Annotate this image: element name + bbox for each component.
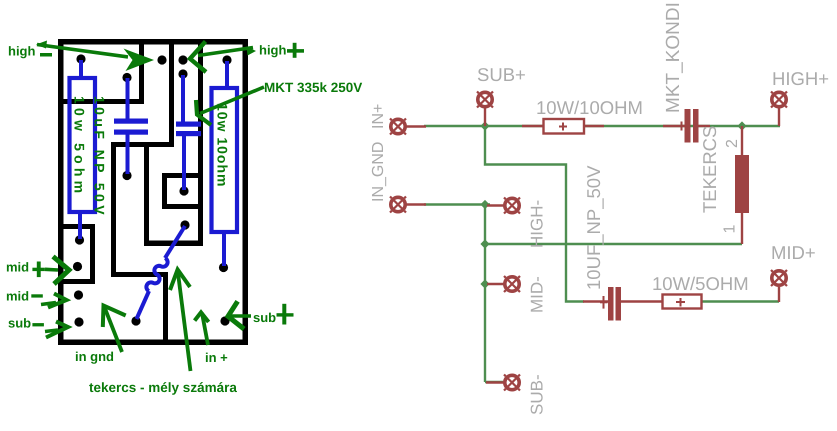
wire: R2 top lead [225, 61, 229, 88]
pad IN+ [390, 119, 406, 135]
capacitor 10UF_NP_50V right lead [621, 300, 663, 302]
pin number 1 [722, 225, 739, 234]
svg-text:in gnd: in gnd [75, 349, 114, 364]
trace wall: vertical divider V1 [169, 44, 174, 147]
label: tekercs - mely szamara [89, 380, 237, 395]
wire: R2 bottom lead [222, 232, 226, 266]
label MID- (rotated) [528, 276, 547, 313]
wire: R1 top lead [79, 60, 83, 78]
resistor 10W/10OHM R-EU leads [522, 125, 604, 127]
label R1 value 10w 5ohm [72, 96, 88, 197]
pad hole: sub+ node [220, 316, 229, 325]
pad HIGH+ [771, 92, 787, 108]
pin number 2 [724, 139, 741, 148]
arrow: in + pointer [195, 312, 209, 345]
svg-text:sub: sub [8, 316, 31, 331]
capacitor C1 plates [114, 119, 148, 135]
wire: net IN+ branch down from junction [485, 126, 584, 302]
wire: net GND to TEKERCS pin1 [485, 243, 742, 245]
svg-text:MID+: MID+ [771, 242, 816, 263]
trace wall: notch box top [162, 173, 198, 178]
pad IN_GND [390, 197, 406, 213]
junction node at MID- [480, 279, 489, 288]
capacitor C1 bottom lead [126, 134, 130, 174]
pad hole: mid+ node [73, 262, 82, 271]
svg-text:high: high [259, 43, 286, 58]
pad hole: mid- node [74, 290, 83, 299]
wire: net GND horizontal IN_GND to HIGH- [424, 203, 490, 205]
resistor 10W/5OHM plus mark [676, 298, 685, 307]
inductor L1 coil squiggle [137, 226, 186, 319]
svg-text:in +: in + [205, 350, 228, 365]
arrow: high - pointer [36, 41, 154, 72]
junction node at TEKERCS pin2 [737, 121, 746, 130]
label: mid + [6, 260, 45, 278]
trace wall: horizontal H2 [111, 272, 168, 277]
svg-text:TEKERCS: TEKERCS [699, 126, 720, 213]
trace wall: horizontal H3 [144, 241, 203, 247]
arrow: tekercs pointer [170, 270, 191, 372]
pad hole: C1 top node [122, 73, 131, 82]
pad SUB+ [477, 92, 493, 108]
svg-text:2: 2 [724, 139, 741, 148]
resistor 10W/10OHM plus mark [559, 123, 567, 131]
pad hole: C2 bottom node [179, 186, 188, 195]
capacitor 10UF_NP_50V plates [608, 287, 621, 321]
label SUB+ [477, 64, 526, 85]
pin stem HIGH- [487, 204, 504, 206]
svg-text:10uF NP 50V: 10uF NP 50V [92, 96, 108, 218]
label C1 value 10uF NP 50V [92, 96, 108, 218]
arrow: mid + pointer [45, 257, 69, 285]
label SUB- (rotated) [528, 374, 547, 415]
pad hole: sub- node [74, 317, 83, 326]
arrow: mid - pointer [41, 294, 67, 308]
trace wall: notch box bottom [162, 204, 203, 209]
wire: net MID+ from resistor to pad [701, 300, 779, 302]
trace wall: vertical divider V5 [198, 44, 203, 246]
capacitor C1 top lead [126, 78, 130, 119]
resistor 10W/5OHM body [663, 295, 702, 309]
junction node at SUB+/IN+ [480, 121, 489, 130]
arrow: MKT pointer [196, 87, 264, 125]
pin stem MID- [487, 283, 504, 285]
label 10UF_NP_50V [583, 165, 604, 290]
junction node at IN_GND/HIGH- [480, 200, 489, 209]
arrow: in gnd pointer [103, 306, 126, 353]
svg-text:mid: mid [6, 260, 29, 275]
label: in gnd [75, 349, 114, 364]
label 10W/10OHM [536, 97, 643, 118]
pin stem SUB+ [484, 107, 486, 126]
wire: net GND to SUB- [485, 381, 503, 383]
board outline left wall [58, 39, 64, 345]
pad hole: C1 bottom node [122, 171, 131, 180]
pad SUB- [504, 375, 520, 391]
pad hole: R2 bottom node [219, 263, 228, 272]
svg-text:mid: mid [6, 289, 29, 304]
resistor 10W/10OHM body [544, 119, 585, 134]
pad MID- [504, 276, 520, 292]
svg-text:MID-: MID- [528, 276, 547, 313]
svg-text:MKT_KONDI: MKT_KONDI [663, 2, 684, 113]
trace wall: vertical V4 [144, 147, 149, 246]
pin stem IN+ [406, 125, 426, 127]
pad hole: coil top node [180, 220, 189, 229]
capacitor 10UF_NP_50V left lead with plus mark [583, 296, 608, 309]
label HIGH- (rotated) [528, 200, 547, 248]
label R2 value 10w 10ohm [215, 103, 231, 187]
inductor TEKERCS pin 1 [741, 213, 743, 244]
pin stem HIGH+ [778, 107, 780, 126]
board outline top wall [58, 39, 248, 45]
pin stem SUB- [486, 381, 504, 383]
capacitor MKT_KONDI left lead with polarity tick [663, 122, 685, 131]
capacitor C2 top lead [181, 75, 185, 123]
svg-text:SUB+: SUB+ [477, 64, 526, 85]
pad hole: node row2 [157, 55, 166, 64]
arrow: sub - pointer [45, 322, 68, 338]
capacitor C2 plates [176, 122, 201, 137]
label IN+ (rotated) [370, 104, 387, 129]
svg-text:tekercs - mély számára: tekercs - mély számára [89, 380, 237, 395]
arrow: high + pointer [190, 42, 256, 73]
pad hole: C2 top node [178, 69, 187, 78]
label 10W/5OHM [652, 273, 749, 294]
pin stem IN_GND [406, 203, 426, 205]
label MKT_KONDI [663, 2, 684, 113]
svg-text:IN+: IN+ [370, 104, 387, 129]
svg-text:10W/10OHM: 10W/10OHM [536, 97, 643, 118]
wire: R1 bottom lead [78, 212, 82, 239]
trace wall: vertical V2 [111, 142, 116, 277]
svg-text:HIGH-: HIGH- [528, 200, 547, 248]
trace wall: high- island bottom wall [58, 99, 144, 104]
capacitor MKT_KONDI right lead [699, 125, 711, 127]
label: high - [8, 44, 52, 59]
pad hole: R2 top node [222, 55, 231, 64]
board outline bottom wall [58, 340, 248, 346]
pad MID+ [771, 270, 787, 286]
svg-text:HIGH+: HIGH+ [772, 68, 829, 89]
svg-text:IN_GND: IN_GND [370, 142, 387, 202]
pin stem MID+ [778, 287, 780, 302]
svg-text:sub: sub [253, 310, 276, 325]
trace wall: mid island bottom [63, 279, 95, 284]
inductor TEKERCS body [735, 155, 749, 213]
wire: net IN+ main horizontal [424, 125, 780, 127]
label: MKT 335k 250V [264, 80, 362, 95]
label: sub - [8, 316, 44, 331]
label MID+ [771, 242, 816, 263]
pad HIGH- [504, 198, 520, 214]
board outline right wall [243, 39, 249, 345]
wire: net GND vertical trunk [484, 205, 486, 383]
capacitor MKT_KONDI plates [685, 109, 699, 143]
trace wall: mid island top [63, 224, 95, 229]
pad hole: high+ node [178, 55, 187, 64]
svg-text:10UF_NP_50V: 10UF_NP_50V [583, 165, 604, 290]
svg-text:10w 10ohm: 10w 10ohm [215, 103, 231, 187]
resistor R1 10w 5ohm body [70, 78, 96, 212]
junction node at GND/TEKERCS wire [480, 239, 489, 248]
svg-text:1: 1 [722, 225, 739, 234]
label IN_GND (rotated) [370, 142, 387, 202]
trace wall: vertical V3 [163, 272, 168, 345]
svg-text:10w 5ohm: 10w 5ohm [72, 96, 88, 197]
trace wall: horizontal H1 [111, 142, 174, 147]
resistor R2 10w 10ohm body [212, 88, 238, 232]
pad hole: R1 bottom node [75, 235, 84, 244]
arrow: sub + pointer [228, 301, 251, 329]
trace wall: mid island right [90, 224, 95, 284]
svg-text:high: high [8, 44, 35, 59]
trace wall: notch box left [162, 173, 167, 209]
svg-text:SUB-: SUB- [528, 374, 547, 415]
trace wall: high- island right wall [139, 44, 144, 104]
label HIGH+ [772, 68, 829, 89]
label: sub + (right) [253, 304, 294, 325]
pad hole: coil bottom node [131, 316, 140, 325]
label TEKERCS [699, 126, 720, 213]
pad hole: high- node [76, 54, 85, 63]
capacitor C2 bottom lead [182, 135, 186, 190]
svg-text:MKT 335k 250V: MKT 335k 250V [264, 80, 362, 95]
svg-text:10W/5OHM: 10W/5OHM [652, 273, 749, 294]
label: mid - [6, 289, 43, 304]
label: high + [259, 43, 304, 58]
inductor TEKERCS pin 2 [741, 126, 743, 155]
label: in + [205, 350, 228, 365]
